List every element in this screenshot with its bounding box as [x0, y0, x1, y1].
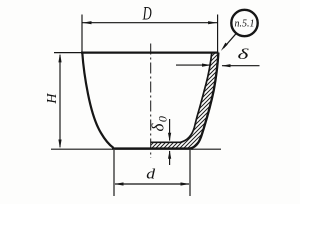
delta dimension right segment — [222, 65, 260, 67]
D extension right — [217, 15, 219, 53]
svg-text:D: D — [142, 4, 152, 24]
d arrow left — [115, 182, 124, 185]
delta arrow right (points at outer wall face) — [222, 64, 231, 67]
delta dimension left segment — [176, 64, 211, 66]
D arrow right — [208, 21, 217, 24]
D arrow left — [82, 21, 91, 24]
balloon leader arrowhead — [221, 43, 228, 51]
rim line (top edge of crucible) — [81, 51, 218, 53]
baseline — [51, 148, 221, 150]
svg-text:δ0: δ0 — [149, 115, 170, 132]
delta0 dimension upper arrow — [169, 119, 171, 141]
delta0 dimension lower arrow — [169, 151, 171, 165]
wall outer line — [189, 53, 218, 149]
H arrow down — [58, 140, 61, 149]
d arrow right — [181, 182, 190, 185]
D extension left — [81, 15, 83, 53]
d extension left — [113, 150, 115, 196]
label D — [142, 4, 152, 24]
delta0 arrowhead down — [168, 133, 171, 142]
d extension right — [189, 150, 191, 196]
svg-text:H: H — [45, 93, 60, 105]
crucible bottom (thick) — [112, 147, 193, 149]
delta arrow left (points at inner wall face) — [202, 64, 211, 67]
left outer profile — [82, 53, 113, 148]
wall inner line — [150, 53, 211, 143]
label delta0 (rotated) — [149, 115, 170, 132]
balloon leader — [224, 34, 236, 48]
balloon circle p.5.1 — [231, 10, 257, 36]
rim extension line (left, for H) — [54, 52, 82, 54]
label delta — [238, 47, 250, 63]
d dimension line — [115, 183, 189, 185]
svg-text:п.5.1: п.5.1 — [235, 19, 255, 30]
label d — [146, 165, 156, 182]
label H — [45, 93, 60, 105]
centerline — [150, 44, 152, 159]
D dimension line — [82, 22, 218, 24]
H dimension line — [59, 55, 61, 147]
delta0 arrowhead up — [168, 150, 171, 159]
svg-text:d: d — [146, 165, 156, 182]
svg-text:δ: δ — [238, 47, 250, 63]
H arrow up — [58, 53, 61, 62]
wall section (hatched) — [151, 53, 219, 149]
